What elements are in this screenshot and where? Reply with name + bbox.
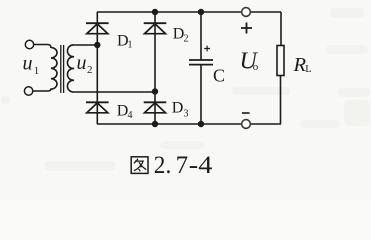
svg-text:2: 2 [87, 64, 93, 76]
label RL [293, 54, 312, 76]
diode D4 [86, 102, 109, 113]
caption 图 glyph (drawn) [131, 157, 148, 174]
label D2 [173, 26, 189, 45]
diode D2 [144, 23, 167, 34]
node top rail D2 junction [152, 9, 158, 15]
label Uo [240, 49, 259, 75]
wire secondary top to node A [74, 44, 97, 46]
svg-text:L: L [305, 64, 311, 75]
wire right column bottom [280, 76, 282, 125]
wire bottom rail [97, 123, 281, 125]
transformer primary terminal top [25, 40, 33, 48]
label D1 [117, 32, 133, 50]
transformer primary terminal bottom [24, 87, 32, 95]
node B junction dot [152, 88, 158, 94]
svg-text:1: 1 [128, 40, 133, 51]
transformer T secondary winding [67, 45, 74, 92]
capacitor C plates [189, 60, 213, 65]
transformer T primary winding [33, 45, 57, 92]
node top rail capacitor junction [198, 9, 204, 15]
resistor RL body [277, 46, 284, 76]
wire bridge column A (D1/D4) [96, 12, 98, 124]
svg-text:o: o [253, 61, 259, 73]
svg-text:3: 3 [184, 108, 189, 119]
wire top rail [97, 11, 281, 13]
faint page smudges [1, 8, 370, 171]
output terminal + (top) [242, 8, 251, 17]
label D3 [172, 99, 189, 119]
capacitor polarity + [204, 46, 210, 52]
wire right column top [280, 12, 282, 46]
svg-text:C: C [213, 66, 225, 86]
label u2 [77, 52, 93, 76]
svg-text:D: D [172, 99, 184, 116]
label u1 [23, 52, 40, 77]
diode D1 [86, 23, 109, 34]
node bottom rail capacitor junction [198, 121, 204, 127]
wire secondary bottom to node B [74, 91, 155, 93]
wire bridge column B (D2/D3) [154, 12, 156, 124]
output terminal - (bottom) [242, 120, 251, 129]
minus sign [242, 112, 250, 114]
svg-text:2: 2 [184, 34, 189, 45]
transformer core [61, 45, 64, 93]
node bottom rail D3 junction [152, 121, 158, 127]
svg-text:2.7-4: 2.7-4 [154, 152, 213, 179]
svg-text:4: 4 [128, 110, 133, 121]
svg-text:1: 1 [34, 65, 40, 77]
node A junction dot [94, 42, 100, 48]
diode D3 [144, 102, 167, 113]
wire capacitor column [200, 12, 202, 124]
svg-text:u: u [23, 52, 33, 74]
plus sign [241, 23, 252, 34]
svg-text:u: u [77, 52, 87, 74]
label D4 [117, 103, 133, 122]
